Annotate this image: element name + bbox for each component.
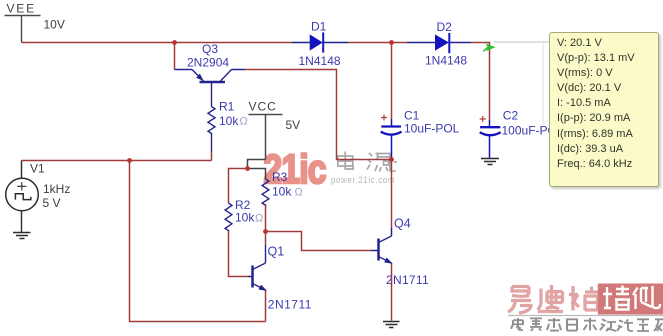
- wire Q3 emitter lead: [175, 69, 193, 71]
- diode D2 1N4148: [407, 33, 471, 53]
- wire Q1 emitter down to bottom rail: [265, 290, 267, 321]
- transistor Q4 (NPN 2N1711): [379, 228, 392, 263]
- capacitor C2 100uF-POL: [480, 120, 501, 159]
- svg-text:2N1711: 2N1711: [386, 273, 429, 287]
- label C2: [503, 108, 519, 122]
- svg-text:Ω: Ω: [255, 213, 263, 225]
- wire D2 to output node: [471, 43, 490, 121]
- ground C2: [481, 159, 499, 165]
- wire V1 to R1 rail: [22, 160, 212, 162]
- svg-text:2N1711: 2N1711: [268, 297, 312, 311]
- watermark dian yuan text: [334, 149, 398, 175]
- label R2 value 10k ohm: [235, 211, 263, 225]
- svg-text:C2: C2: [503, 108, 519, 122]
- svg-text:10k: 10k: [219, 114, 239, 128]
- wire faint stub below box edge: [542, 43, 544, 125]
- svg-text:10V: 10V: [44, 18, 65, 32]
- node junction VCC / R2 / R3: [245, 166, 250, 171]
- watermark shepin tagline: [511, 318, 663, 331]
- wire Q4 emitter to ground: [391, 263, 393, 320]
- resistor R2 10k: [225, 203, 232, 231]
- svg-text:D2: D2: [437, 20, 453, 34]
- wire Q3 collector to C1 node: [245, 70, 392, 160]
- svg-text:Ω: Ω: [295, 186, 303, 198]
- label R3 value 10k ohm: [272, 184, 303, 198]
- resistor R1 10k: [208, 107, 215, 152]
- label D1: [311, 20, 327, 34]
- wire D1 to D2: [348, 42, 407, 44]
- watermark power.21ic.com: [331, 176, 395, 186]
- label D2: [437, 20, 453, 34]
- label 5 V: [43, 196, 61, 210]
- label 1kHz: [43, 182, 70, 196]
- wire Q3 collector lead: [232, 69, 246, 71]
- wire output to measurement box: [494, 41, 549, 43]
- svg-text:10k: 10k: [272, 184, 292, 198]
- svg-text:R1: R1: [219, 100, 235, 114]
- label Q1 2N1711: [268, 297, 312, 311]
- node junction rail / C1: [389, 40, 394, 45]
- measurement probe box: [549, 32, 659, 187]
- label C1: [404, 109, 420, 123]
- node junction R3 / Q1 collector / Q4 base: [263, 229, 268, 234]
- watermark peixun red block: [598, 284, 663, 315]
- node junction C1 / Q3 collector / Q4 collector: [389, 157, 394, 162]
- wire R3 bottom to Q1 collector node: [265, 204, 267, 232]
- wire R1 bottom to V1 rail: [211, 152, 213, 161]
- resistor R3 10k: [262, 179, 269, 205]
- power symbol VCC: [249, 115, 283, 160]
- label Q4: [394, 217, 411, 231]
- svg-text:VEE: VEE: [7, 1, 36, 15]
- node junction V1 rail / bottom loop: [127, 158, 132, 163]
- label Q4 2N1711: [386, 273, 429, 287]
- svg-text:5 V: 5 V: [43, 196, 61, 210]
- watermark 21ic logo: [258, 148, 343, 190]
- label VCC: [249, 100, 277, 114]
- svg-text:1kHz: 1kHz: [43, 182, 70, 196]
- svg-text:Q4: Q4: [394, 217, 411, 231]
- label VEE: [7, 1, 36, 15]
- label C2 value: [502, 124, 564, 138]
- wire junction down to Q3 emitter: [174, 43, 176, 70]
- wire node to R2 top: [229, 169, 248, 204]
- wire VCC jog to R2/R3 node: [248, 160, 266, 180]
- transistor Q1 (NPN 2N1711): [253, 245, 266, 290]
- svg-text:10k: 10k: [235, 211, 255, 225]
- wire bottom rail: [130, 161, 266, 322]
- label 2N2904: [187, 56, 229, 70]
- svg-text:10uF-POL: 10uF-POL: [404, 121, 460, 135]
- label R1 value 10k ohm: [219, 114, 248, 128]
- label Q1: [268, 244, 285, 258]
- source V1: [6, 161, 39, 211]
- label D1 1N4148: [299, 54, 341, 68]
- watermark yidituo logo red characters: [500, 281, 663, 336]
- svg-text:1N4148: 1N4148: [299, 54, 341, 68]
- svg-text:Ω: Ω: [240, 116, 248, 128]
- label D2 1N4148: [425, 54, 467, 68]
- divider rule: [508, 315, 663, 317]
- wire top rail VEE to D1: [22, 42, 293, 44]
- label R3: [272, 170, 288, 184]
- power symbol VEE: [5, 16, 41, 43]
- svg-text:1N4148: 1N4148: [425, 54, 467, 68]
- label R1: [219, 100, 235, 114]
- svg-text:Q1: Q1: [268, 244, 285, 258]
- ground V1: [13, 211, 31, 239]
- capacitor C1 10uF-POL: [381, 119, 402, 160]
- label 5V: [286, 118, 301, 132]
- diode D1 1N4148: [292, 32, 348, 52]
- svg-text:VCC: VCC: [249, 100, 277, 114]
- label C2 plus: [480, 116, 486, 122]
- svg-text:R3: R3: [272, 170, 288, 184]
- svg-text:D1: D1: [311, 20, 327, 34]
- label V1: [30, 162, 45, 176]
- transistor Q3 (PNP 2N2904): [192, 70, 232, 107]
- probe output marker green: [483, 43, 496, 51]
- label C1 value: [404, 121, 460, 135]
- svg-text:V1: V1: [30, 162, 45, 176]
- svg-text:Q3: Q3: [202, 42, 218, 56]
- wire node down to C1: [391, 43, 393, 120]
- wire node to Q4 base: [266, 232, 372, 251]
- label Q3: [202, 42, 218, 56]
- svg-text:5V: 5V: [286, 118, 301, 132]
- svg-text:2N2904: 2N2904: [187, 56, 229, 70]
- wire node down to Q4 collector: [391, 160, 393, 229]
- label 10V: [44, 18, 65, 32]
- wire Q1 base lead: [248, 276, 253, 278]
- node junction top rail / Q3 emitter: [172, 40, 177, 45]
- wire R2 bottom to Q1 base: [229, 231, 249, 277]
- label C1 plus: [381, 115, 387, 121]
- wire Q1 collector up to node: [265, 232, 267, 246]
- wire Q4 base lead: [371, 250, 379, 252]
- label R2: [235, 198, 251, 212]
- ground Q4: [383, 322, 400, 328]
